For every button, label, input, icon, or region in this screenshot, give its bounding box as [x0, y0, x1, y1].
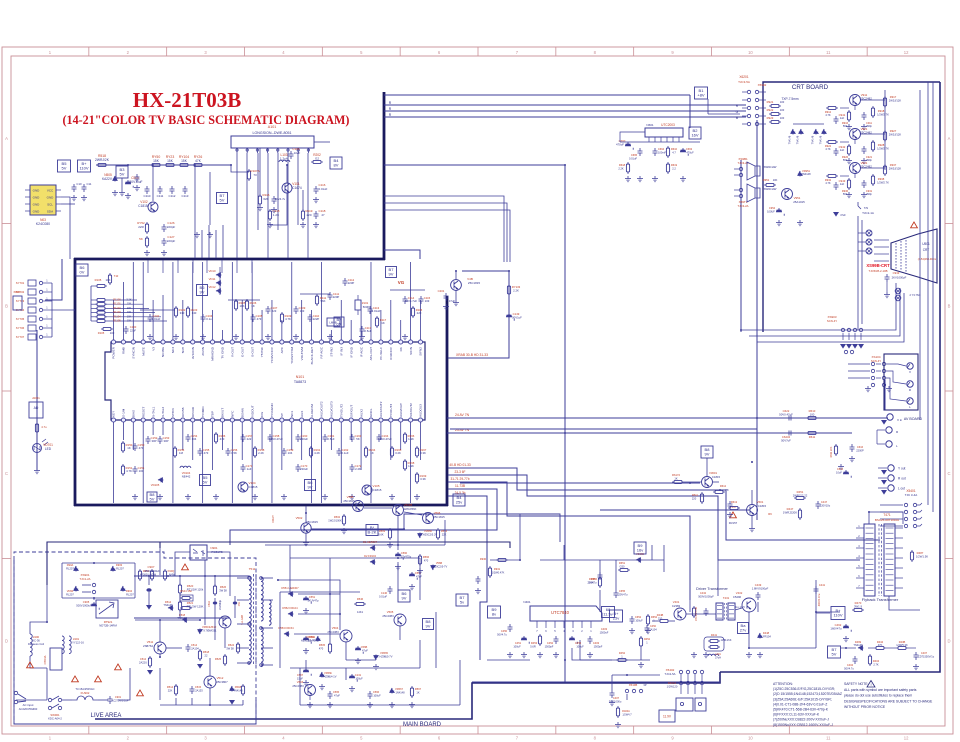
svg-text:T3.15A/250VAC: T3.15A/250VAC — [75, 687, 94, 691]
cap C450b 2A104 — [645, 625, 650, 633]
svg-text:2A22U: 2A22U — [139, 660, 147, 664]
wire socket feed verticals — [857, 216, 859, 330]
diode HER307 secondary — [288, 592, 294, 596]
svg-text:1/2W4.7: 1/2W4.7 — [622, 713, 632, 716]
thick border of title block, right edge — [383, 92, 386, 260]
svg-text:C616: C616 — [857, 445, 864, 449]
resistor R618 2.2K — [627, 162, 629, 174]
wire audio out to speaker connector — [572, 648, 650, 660]
bridge mesh wires — [62, 562, 135, 564]
svg-text:B: B — [5, 303, 8, 308]
wires rgb channel 0 — [840, 107, 849, 109]
svg-text:30P: 30P — [152, 439, 157, 443]
cap C154 — [186, 434, 191, 442]
transistor V3601 C1815 — [702, 477, 713, 488]
svg-text:R1105: R1105 — [113, 319, 121, 323]
svg-text:UTC2003: UTC2003 — [661, 123, 675, 127]
svg-text:(1)Z5C:25C536-E/F/G,25C1815-O/: (1)Z5C:25C536-E/F/G,25C1815-O/Y/GR; — [773, 687, 835, 691]
svg-text:VD564: VD564 — [306, 635, 314, 639]
thick right edge of main IC block — [446, 296, 449, 506]
svg-text:3.3K: 3.3K — [420, 451, 426, 455]
svg-text:RMB: RMB — [122, 347, 126, 354]
svg-text:C663: C663 — [686, 147, 693, 151]
svg-text:2N4148: 2N4148 — [801, 172, 811, 176]
svg-text:4.2K: 4.2K — [314, 451, 320, 455]
svg-text:0.01uF: 0.01uF — [319, 187, 328, 191]
svg-text:R401A: R401A — [668, 681, 676, 685]
grounds below IC — [132, 494, 138, 500]
svg-text:50V0.47uF: 50V0.47uF — [779, 412, 793, 416]
cap C170 — [296, 464, 301, 472]
optocoupler N901 PC817B — [190, 545, 207, 560]
svg-text:390p: 390p — [866, 192, 872, 196]
svg-text:R524: R524 — [228, 643, 235, 647]
wire rail y=558 — [290, 557, 420, 559]
resistor load 1 — [872, 140, 874, 152]
wire bus bend into main block — [194, 165, 196, 258]
svg-text:DM311: DM311 — [208, 628, 217, 632]
cap C172 — [350, 464, 355, 472]
CRT board outline — [763, 82, 940, 95]
svg-text:AD: AD — [34, 406, 39, 410]
warning triangle flyback — [730, 512, 737, 518]
svg-text:L901: L901 — [73, 637, 80, 641]
svg-text:9V: 9V — [402, 596, 407, 601]
wire degauss loop — [30, 622, 47, 634]
smps transformer T511 primary — [249, 576, 251, 663]
svg-text:V56B: V56B — [436, 561, 443, 565]
cap C551 — [303, 596, 311, 604]
svg-text:560: 560 — [843, 158, 848, 162]
av jacks out 2 — [888, 465, 894, 471]
svg-text:2.2: 2.2 — [672, 166, 676, 170]
svg-text:220: 220 — [306, 213, 311, 217]
svg-text:0V: 0V — [80, 270, 85, 275]
cap C942 — [834, 148, 839, 156]
svg-text:R930: R930 — [480, 557, 487, 561]
svg-text:50V1uF: 50V1uF — [512, 315, 522, 319]
svg-text:1/2W2.7K: 1/2W2.7K — [877, 146, 889, 150]
svg-text:AUX/OUT2: AUX/OUT2 — [379, 401, 383, 417]
svg-text:103: 103 — [300, 309, 305, 313]
svg-text:3.2K: 3.2K — [126, 298, 132, 302]
svg-text:330: 330 — [180, 311, 185, 315]
cap C508 — [125, 180, 133, 188]
svg-text:BLACK-DET: BLACK-DET — [310, 347, 314, 364]
svg-text:C439: C439 — [755, 583, 762, 587]
svg-text:R566: R566 — [423, 555, 430, 559]
box b8 11.5V — [602, 607, 615, 618]
svg-text:FR154: FR154 — [763, 634, 771, 638]
svg-text:25V47u: 25V47u — [619, 592, 629, 596]
av jacks top — [907, 363, 913, 369]
audio in jack pair — [886, 427, 892, 433]
wire flyback bottom net — [840, 647, 856, 649]
resistor R1059 top of ladder — [95, 285, 107, 287]
diode FR153 secondary 2 — [284, 632, 290, 636]
resistor R123 — [164, 164, 176, 166]
bridge diode VD901 — [74, 566, 78, 572]
svg-text:50V4.7u: 50V4.7u — [275, 197, 286, 201]
cap C567 15uF — [303, 668, 311, 676]
svg-text:160V47u: 160V47u — [830, 626, 842, 630]
svg-text:ST: ST — [280, 413, 284, 417]
svg-text:4.7K: 4.7K — [825, 181, 831, 185]
wire mid vertical x=741 — [740, 160, 742, 332]
svg-text:1500uF: 1500uF — [600, 630, 609, 634]
svg-text:NFC: NFC — [231, 410, 235, 417]
box B4 25V — [453, 494, 465, 506]
svg-text:TJC3-2A: TJC3-2A — [737, 204, 748, 208]
cap C447 — [816, 501, 821, 509]
svg-text:5v: 5v — [460, 600, 464, 605]
degauss pair circles — [844, 350, 847, 353]
wire bottom bus y=682 — [472, 681, 720, 683]
svg-text:VD56b: VD56b — [324, 671, 332, 675]
svg-text:C403: C403 — [593, 641, 600, 645]
cap C901 AC — [108, 696, 113, 704]
resistor R109 — [281, 312, 283, 324]
svg-text:R105: R105 — [95, 278, 102, 282]
svg-text:C560: C560 — [401, 551, 408, 555]
cap C140 b+ — [388, 586, 393, 594]
transformer L901 YY12J-16 — [62, 636, 64, 654]
svg-text:R652: R652 — [651, 615, 658, 619]
cap C118 — [314, 211, 319, 219]
svg-text:220pF: 220pF — [167, 239, 176, 243]
svg-text:RF AGC: RF AGC — [320, 346, 324, 358]
svg-text:1uF: 1uF — [840, 148, 845, 152]
wire rail y=545 bottom middle — [265, 544, 445, 546]
cap C163 — [350, 434, 355, 442]
svg-text:1.5K: 1.5K — [231, 451, 237, 455]
svg-text:C665: C665 — [631, 153, 638, 157]
svg-text:C10: C10 — [76, 182, 82, 186]
svg-text:3.3K: 3.3K — [420, 477, 426, 481]
svg-text:SW901: SW901 — [50, 713, 60, 717]
svg-text:470uF: 470uF — [616, 142, 624, 146]
svg-text:4.7K: 4.7K — [825, 113, 831, 117]
svg-text:V3: V3 — [151, 347, 155, 351]
wire rail y=705 bottom — [300, 704, 460, 706]
wire crt right rail — [884, 90, 886, 170]
svg-text:47uF: 47uF — [840, 214, 846, 217]
svg-text:R951: R951 — [763, 178, 770, 182]
svg-text:1/2W0.47K: 1/2W0.47K — [492, 570, 505, 574]
svg-text:C933: C933 — [893, 271, 900, 275]
resistor R524 3W58 — [237, 642, 239, 654]
svg-text:22K: 22K — [442, 532, 447, 536]
box AD01 — [29, 402, 43, 418]
svg-text:STB/3: STB/3 — [171, 408, 175, 417]
resistor load 2 — [872, 174, 874, 186]
svg-text:TJC50/8-2-10B: TJC50/8-2-10B — [869, 269, 888, 273]
box B6 9V lower — [398, 590, 410, 602]
cap C515 2A153 — [190, 686, 195, 694]
cap C553 — [303, 636, 311, 644]
svg-text:R567: R567 — [415, 687, 422, 691]
svg-text:RL207: RL207 — [126, 592, 134, 596]
diode VD567 bottom strip — [390, 688, 394, 694]
diode FR154 secondary — [288, 612, 294, 616]
svg-text:T10: T10 — [114, 274, 119, 278]
cap C114 — [403, 296, 408, 304]
ic N601 UTC2003 — [645, 128, 683, 137]
svg-text:T-A-G3B: T-A-G3B — [240, 615, 244, 625]
svg-text:U501: U501 — [922, 242, 930, 246]
svg-text:25C2383: 25C2383 — [327, 630, 339, 634]
box B7 5V lower — [456, 594, 468, 606]
cap C560 35V470u — [395, 552, 403, 560]
svg-text:Degauss Coil: Degauss Coil — [28, 642, 44, 646]
resistor R514 22K — [175, 684, 177, 696]
svg-text:25C1815: 25C1815 — [468, 281, 481, 285]
svg-text:560: 560 — [843, 192, 848, 196]
svg-text:KEY: KEY — [112, 411, 116, 417]
resistor R907 — [164, 569, 166, 581]
transistor V601 C1815 second — [747, 505, 758, 516]
vertical feeds from top edge into cluster — [147, 260, 149, 273]
transistor V512 25C3807 — [204, 676, 216, 688]
svg-text:1/2W120: 1/2W120 — [667, 685, 678, 689]
svg-text:D: D — [5, 638, 8, 643]
wire ac path — [16, 699, 47, 701]
wire sound line y=165 to vertical x=565 — [384, 165, 565, 682]
box B7 0V small3 — [334, 317, 344, 327]
svg-text:KA22V: KA22V — [102, 177, 113, 181]
svg-text:SIF/OUT2: SIF/OUT2 — [409, 403, 413, 417]
svg-text:AV2IN: AV2IN — [201, 347, 205, 356]
svg-text:C1815: C1815 — [249, 485, 258, 489]
svg-text:C447: C447 — [821, 500, 828, 504]
svg-text:2W5J/12K: 2W5J/12K — [889, 166, 902, 170]
resistor pair R441 1WRJ1K — [708, 640, 720, 642]
wires tuner IF drop from title box — [384, 196, 504, 262]
resistor R545 — [180, 607, 192, 609]
box B8 9V drive — [701, 446, 713, 458]
cap C131 100uF — [349, 674, 357, 682]
svg-text:104: 104 — [288, 451, 293, 455]
cap C102 — [148, 314, 153, 322]
svg-text:TN4148: TN4148 — [820, 135, 823, 144]
resistor R169 — [416, 472, 418, 484]
diode D448 FR154 — [758, 633, 762, 639]
cap C565 bottom strip — [328, 691, 333, 699]
svg-text:R922: R922 — [767, 108, 774, 112]
resistor R512 2A22U — [149, 656, 151, 668]
svg-text:SIF/N: SIF/N — [409, 347, 413, 355]
transistor V504 25C2383 lower — [340, 630, 352, 642]
box 11.9V — [659, 710, 675, 722]
cluster right of staircase — [489, 566, 491, 578]
svg-text:TJC2-5A: TJC2-5A — [664, 672, 675, 676]
svg-text:(7)Z00NuXXX:CB822-200V-XXXuF-J: (7)Z00NuXXX:CB822-200V-XXXuF-J — [773, 718, 829, 722]
box B+ 25V — [610, 610, 623, 622]
svg-text:1WRJ220K: 1WRJ220K — [783, 510, 797, 514]
svg-text:GNCL: GNCL — [369, 408, 373, 417]
svg-text:(5)KK470:CT1-56B-2B4-63V-470p-: (5)KK470:CT1-56B-2B4-63V-470p-K — [773, 708, 829, 712]
svg-text:4.7K: 4.7K — [285, 317, 291, 321]
svg-text:2KV680p: 2KV680p — [219, 599, 222, 610]
svg-text:C1674: C1674 — [292, 186, 302, 190]
transistor V102 C1815 — [148, 202, 158, 212]
resistor R546 — [354, 603, 366, 605]
svg-text:R514: R514 — [167, 685, 174, 689]
speaker can left — [676, 698, 693, 711]
warning triangles psu — [27, 662, 34, 668]
resistor R611 — [806, 432, 818, 434]
svg-text:SDA: SDA — [47, 210, 53, 214]
svg-text:1K: 1K — [416, 690, 419, 694]
svg-text:4.7K: 4.7K — [126, 469, 132, 473]
svg-text:2A104: 2A104 — [649, 628, 657, 631]
grounds above IC — [147, 334, 153, 340]
svg-text:C652: C652 — [635, 615, 642, 619]
svg-text:TJC2-1A: TJC2-1A — [862, 211, 874, 215]
svg-text:R-OUT: R-OUT — [231, 347, 235, 357]
svg-text:R1102: R1102 — [113, 306, 121, 310]
svg-text:GND: GND — [33, 210, 41, 214]
svg-text:K90Q: K90Q — [168, 569, 175, 573]
svg-text:0.01uF: 0.01uF — [629, 156, 637, 160]
svg-text:22uF: 22uF — [130, 328, 136, 332]
svg-text:D552 FR104: D552 FR104 — [282, 606, 298, 610]
svg-text:100: 100 — [780, 116, 785, 120]
wires rgb channel 2 — [840, 175, 849, 177]
coil VD104 NE442 — [180, 466, 191, 468]
svg-text:X-TAL2: X-TAL2 — [161, 406, 165, 417]
svg-text:YC/9VCC/V: YC/9VCC/V — [270, 346, 274, 363]
svg-text:C111: C111 — [157, 194, 164, 198]
diode VD655 — [636, 558, 642, 562]
resistor emitter 1 — [848, 144, 850, 156]
svg-text:C650: C650 — [591, 577, 598, 581]
svg-text:C441: C441 — [819, 583, 826, 587]
svg-text:SCN-4Y: SCN-4Y — [827, 319, 837, 323]
wire audio bottom mesh — [612, 674, 660, 676]
svg-text:R921: R921 — [767, 100, 774, 104]
svg-text:56K: 56K — [321, 299, 326, 303]
svg-text:R619: R619 — [671, 163, 678, 167]
svg-text:RESET: RESET — [141, 407, 145, 417]
cap C517 blob — [233, 602, 237, 605]
svg-text:R544 15k: R544 15k — [180, 589, 192, 593]
crt socket pins crossed — [866, 230, 872, 236]
wire mid vertical x=757 — [756, 120, 758, 520]
wire live mesh — [174, 568, 176, 576]
svg-text:C131: C131 — [355, 673, 362, 677]
svg-text:D553 FR154: D553 FR154 — [278, 626, 294, 630]
svg-text:R938: R938 — [878, 177, 885, 181]
svg-text:C51: C51 — [238, 601, 241, 606]
resistor R102 — [175, 306, 177, 318]
svg-text:ALL parts with symbol are: ALL parts with symbol are important safe… — [844, 688, 917, 692]
connector XP01 box — [13, 296, 22, 310]
svg-text:N401: N401 — [523, 600, 531, 604]
svg-text:CD71550V/1u: CD71550V/1u — [918, 654, 935, 658]
anode wire — [889, 596, 920, 610]
svg-text:0.5uF: 0.5uF — [327, 437, 334, 441]
diode D518 TN4148 — [182, 618, 188, 622]
svg-text:73: 73 — [253, 173, 257, 177]
svg-text:1500pF: 1500pF — [594, 644, 603, 648]
svg-text:VD90: VD90 — [67, 589, 74, 593]
svg-text:62K: 62K — [263, 197, 268, 201]
svg-text:1M: 1M — [179, 451, 184, 455]
svg-text:1K: 1K — [127, 446, 131, 450]
svg-text:R613: R613 — [731, 500, 738, 504]
cap C115 — [419, 296, 424, 304]
smps transformer T511 secondary 1 — [261, 577, 263, 621]
box B-2K — [366, 525, 378, 536]
diode group TN4148 crt — [791, 129, 795, 135]
cap C439 1.8KV9100pF — [756, 592, 761, 600]
cap C663 — [680, 148, 688, 156]
svg-text:DESIGN&SPECIFICATIONS ARE SUBJ: DESIGN&SPECIFICATIONS ARE SUBJECT TO CHA… — [844, 699, 933, 703]
svg-text:S-1/M: S-1/M — [122, 408, 126, 417]
transistor V105 below IC — [362, 485, 372, 495]
svg-text:103: 103 — [425, 299, 430, 303]
svg-text:47K: 47K — [195, 159, 202, 163]
svg-text:3.2K: 3.2K — [395, 451, 401, 455]
svg-text:500V/1000pF: 500V/1000pF — [698, 594, 714, 598]
cap C612 10uF — [843, 470, 851, 478]
svg-text:T/N: T/N — [864, 206, 868, 210]
svg-text:R6: R6 — [768, 512, 772, 516]
svg-text:MUTE: MUTE — [141, 347, 145, 356]
cap C660 — [625, 142, 633, 150]
svg-text:TV/OUT3: TV/OUT3 — [389, 404, 393, 417]
svg-text:RL207: RL207 — [66, 566, 74, 570]
cap C452 — [554, 636, 559, 644]
svg-text:LIVE AREA: LIVE AREA — [91, 713, 122, 719]
svg-text:SY707: SY707 — [16, 335, 25, 339]
svg-text:1.8KV9100pF: 1.8KV9100pF — [752, 586, 769, 590]
svg-text:C512: C512 — [140, 657, 147, 661]
live area dashed boundary — [14, 560, 256, 724]
svg-text:R931: R931 — [494, 567, 501, 571]
svg-text:2.7K: 2.7K — [873, 662, 879, 666]
svg-text:T511: T511 — [249, 567, 256, 571]
svg-text:C201: C201 — [438, 289, 445, 293]
resistor R951 — [764, 184, 776, 186]
svg-text:C664: C664 — [658, 147, 665, 151]
svg-text:TN4148: TN4148 — [853, 643, 863, 647]
cap C941 — [834, 116, 839, 124]
svg-text:VD565: VD565 — [380, 651, 388, 655]
cap C943 — [834, 182, 839, 190]
cap peaking 2 — [862, 180, 867, 188]
svg-text:R918: R918 — [878, 109, 885, 113]
svg-text:100UF: 100UF — [767, 209, 775, 213]
bridge diode VD904 — [121, 586, 125, 592]
svg-text:9V: 9V — [389, 272, 394, 277]
svg-text:C432: C432 — [700, 591, 707, 595]
connector XS104 ground row — [871, 383, 874, 386]
resistor RY53 — [146, 236, 148, 248]
svg-text:2WRJ/2K: 2WRJ/2K — [95, 158, 110, 162]
wire feed from secondary to b+ area — [330, 580, 340, 594]
svg-text:R917: R917 — [890, 95, 897, 99]
diode VD564 — [316, 636, 320, 642]
svg-text:25C1815: 25C1815 — [433, 515, 445, 519]
cap C514 2A104 — [186, 644, 191, 652]
svg-text:47uF: 47uF — [362, 648, 368, 652]
svg-text:SY703: SY703 — [16, 299, 25, 303]
svg-text:C453: C453 — [575, 641, 582, 645]
transformer node circles — [248, 577, 251, 580]
svg-text:1N4148: 1N4148 — [395, 690, 405, 694]
